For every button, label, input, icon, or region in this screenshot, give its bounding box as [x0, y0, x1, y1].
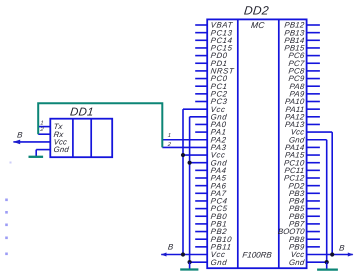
svg-text:Gnd: Gnd	[53, 145, 70, 154]
svg-text:MC: MC	[250, 20, 265, 30]
svg-text:DD1: DD1	[69, 106, 94, 118]
svg-text:DD2: DD2	[243, 3, 269, 17]
svg-text:Gnd: Gnd	[210, 258, 228, 267]
svg-text:1: 1	[167, 133, 171, 139]
svg-text:1: 1	[40, 121, 44, 127]
svg-text:F100RB: F100RB	[242, 250, 273, 259]
svg-text:Gnd: Gnd	[289, 258, 306, 267]
